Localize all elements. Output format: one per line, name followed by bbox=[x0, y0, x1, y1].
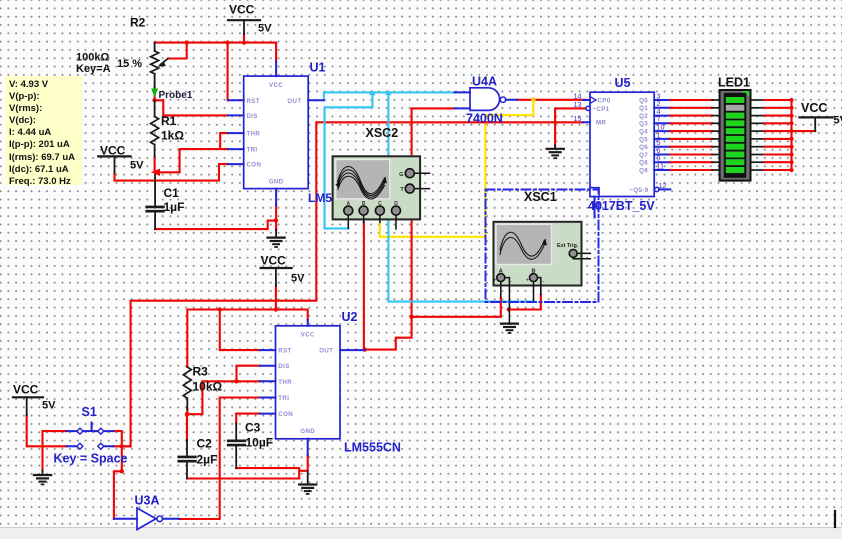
svg-text:Key=A: Key=A bbox=[76, 63, 111, 75]
svg-text:Q6: Q6 bbox=[639, 144, 648, 151]
wire: LED1 right red wires to VCC bus bbox=[765, 100, 816, 170]
switch S1 Key=Space bbox=[54, 405, 128, 466]
svg-text:A: A bbox=[346, 201, 350, 207]
svg-text:RST: RST bbox=[278, 348, 291, 355]
wire: THR/TRI net of U1 bbox=[155, 133, 228, 172]
op-amp U5 4017BT_5V body bbox=[574, 76, 671, 218]
svg-text:VCC: VCC bbox=[100, 144, 126, 158]
svg-text:S1: S1 bbox=[82, 405, 97, 419]
wire: U2 CON to C3 bbox=[236, 414, 260, 424]
node: XSC1 selection box (dashed) bbox=[486, 190, 599, 303]
wire: RST U1 from bus bbox=[227, 43, 229, 101]
node: yellow junction at gate output bbox=[531, 98, 536, 103]
wire: S1 right terminals tie + to U3A input bbox=[113, 431, 130, 519]
capacitor C2 2uF bbox=[179, 437, 218, 479]
resistor R1 1k bbox=[151, 100, 185, 156]
node: junction dots on LED VCC bus bbox=[789, 98, 793, 172]
svg-text:C2: C2 bbox=[197, 437, 213, 451]
svg-text:Q5: Q5 bbox=[639, 136, 648, 143]
ground (U2 GND) bbox=[299, 471, 316, 494]
svg-text:DIS: DIS bbox=[247, 113, 258, 120]
wire: DIS U1 net bbox=[155, 100, 228, 115]
node: junction at R3 bottom bbox=[185, 412, 189, 416]
ground (U5 CP1) bbox=[547, 145, 564, 158]
svg-text:A: A bbox=[499, 269, 503, 275]
wire: R2 wiper to bus bbox=[168, 43, 187, 59]
svg-text:VCC: VCC bbox=[13, 383, 39, 397]
wire: U2 TRI to U3A output bbox=[179, 398, 260, 520]
transistor U4A 7400N NAND gate bbox=[454, 75, 517, 126]
svg-text:CON: CON bbox=[278, 411, 293, 418]
wire: U2 THR to R3 bottom / C2 top bbox=[187, 381, 260, 440]
op-amp U1 LM555CN body bbox=[228, 61, 363, 206]
node: junction at U1 ground bbox=[274, 218, 278, 222]
power VCC right (LED anodes) bbox=[799, 101, 842, 131]
oscilloscope XSC2 (4-channel) bbox=[333, 126, 430, 229]
svg-text:D: D bbox=[394, 201, 398, 207]
power VCC above U2 bbox=[261, 254, 306, 286]
svg-text:GND: GND bbox=[300, 428, 315, 435]
transistor U3A inverter bbox=[114, 494, 179, 530]
svg-text:DIS: DIS bbox=[278, 363, 289, 370]
svg-text:R1: R1 bbox=[161, 114, 177, 128]
svg-text:Q9: Q9 bbox=[639, 167, 648, 174]
svg-text:Q7: Q7 bbox=[639, 152, 648, 159]
svg-text:13: 13 bbox=[574, 100, 582, 109]
wire: XSC1 A+/A-/B+ stems bbox=[501, 278, 541, 324]
svg-text:5V: 5V bbox=[834, 115, 842, 127]
wire: XSC2 channel B down to U2 OUT net bbox=[363, 222, 365, 350]
svg-text:XSC2: XSC2 bbox=[366, 126, 399, 140]
wire: C1 bottom to U1 GND net bbox=[155, 206, 276, 230]
svg-text:Key = Space: Key = Space bbox=[54, 452, 128, 466]
svg-text:THR: THR bbox=[247, 131, 261, 138]
svg-text:VCC: VCC bbox=[301, 332, 315, 339]
svg-text:Probe1: Probe1 bbox=[159, 90, 193, 101]
svg-text:Q2: Q2 bbox=[639, 113, 648, 120]
svg-text:T: T bbox=[400, 187, 404, 193]
svg-text:TRI: TRI bbox=[247, 147, 258, 154]
wire: U5 Q output stubs and pin numbers bbox=[639, 91, 670, 174]
probe Probe1 (green arrow) bbox=[151, 89, 193, 102]
node: scroll caret bottom right bbox=[834, 511, 836, 527]
svg-text:U3A: U3A bbox=[135, 494, 160, 508]
svg-text:1kΩ: 1kΩ bbox=[161, 129, 184, 143]
svg-text:~Q5-9: ~Q5-9 bbox=[629, 187, 648, 194]
wire: yellow net gate output to XSC2 channel C bbox=[380, 100, 533, 237]
svg-text:CP0: CP0 bbox=[598, 98, 611, 105]
node: cyan junction arrows on U4A input wire bbox=[369, 90, 391, 95]
svg-text:100kΩ: 100kΩ bbox=[76, 52, 109, 64]
cyan net: U1 OUT to U4A input A, XSC2-A, XSC1-B bbox=[324, 92, 534, 301]
svg-text:R3: R3 bbox=[193, 365, 209, 379]
svg-text:Q8: Q8 bbox=[639, 160, 648, 167]
wire: U1 GND stub red segment bbox=[275, 228, 277, 231]
resistor R3 10k bbox=[183, 365, 222, 410]
svg-text:XSC1: XSC1 bbox=[524, 190, 557, 204]
svg-text:LM555CN: LM555CN bbox=[344, 441, 401, 455]
ground (XSC1) bbox=[501, 324, 518, 333]
node: junctions on U2 VCC bus bbox=[218, 307, 278, 311]
svg-text:MR: MR bbox=[596, 120, 606, 127]
svg-text:LED1: LED1 bbox=[718, 76, 750, 90]
op-amp U2 LM555CN body bbox=[260, 310, 401, 455]
svg-text:VCC: VCC bbox=[269, 82, 283, 89]
wire: R1 bottom to THR/TRI junction bbox=[154, 157, 156, 173]
node: junction at S1 right bbox=[120, 444, 124, 473]
measurement probe readout box bbox=[5, 76, 82, 185]
LED1 bargraph display bbox=[718, 76, 751, 181]
svg-text:U5: U5 bbox=[615, 76, 631, 90]
wire: XSC1 B- to ground bbox=[508, 295, 541, 310]
wire: U5 CP1 to ground bbox=[555, 108, 586, 145]
svg-text:Q3: Q3 bbox=[639, 121, 648, 128]
svg-text:C3: C3 bbox=[245, 421, 261, 435]
svg-text:7400N: 7400N bbox=[466, 112, 503, 126]
wire: C2/C3 bottoms to U2 GND bbox=[187, 455, 308, 478]
wire: CON U1 to VCC 5V source bbox=[115, 164, 228, 181]
svg-text:11: 11 bbox=[657, 161, 664, 170]
svg-text:VCC: VCC bbox=[229, 3, 255, 17]
wire: S1 top-left to ground bbox=[43, 431, 67, 470]
wire: R3 bottom lead red bbox=[186, 409, 188, 414]
svg-text:Ext Trig.: Ext Trig. bbox=[557, 243, 579, 249]
svg-text:2µF: 2µF bbox=[197, 453, 218, 467]
svg-text:C1: C1 bbox=[164, 186, 180, 200]
power VCC bottom-left (S1) bbox=[13, 383, 56, 416]
bottom scrollbar strip bbox=[0, 527, 842, 539]
svg-text:TRI: TRI bbox=[278, 395, 289, 402]
svg-text:~CP1: ~CP1 bbox=[593, 106, 610, 113]
wire: U2 OUT net up to U4A input B (long vertical behind XSC2) bbox=[365, 108, 455, 349]
wire: LED1 left black leads bbox=[712, 100, 720, 170]
wire: XSC1 A+ to U2 OUT net bbox=[412, 298, 501, 317]
svg-text:Q0: Q0 bbox=[639, 97, 648, 104]
svg-text:10kΩ: 10kΩ bbox=[193, 380, 223, 394]
svg-text:Q4: Q4 bbox=[639, 129, 648, 136]
svg-text:B: B bbox=[531, 269, 535, 275]
svg-text:U2: U2 bbox=[342, 310, 358, 324]
node: junction at U2 OUT corner bbox=[362, 315, 413, 352]
svg-text:CON: CON bbox=[247, 162, 262, 169]
svg-text:Q1: Q1 bbox=[639, 105, 648, 112]
wire: U4A output to U5 CP0 bbox=[518, 99, 586, 101]
svg-text:5V: 5V bbox=[42, 400, 56, 412]
svg-text:5V: 5V bbox=[291, 273, 305, 285]
oscilloscope XSC1 (2-channel) bbox=[493, 222, 590, 286]
wire: R2 bottom to Probe node to R1 (red segment) bbox=[154, 87, 156, 100]
svg-text:THR: THR bbox=[278, 379, 292, 386]
svg-text:5V: 5V bbox=[130, 160, 144, 172]
node: arrow junction at C1 top bbox=[151, 169, 160, 176]
svg-text:G: G bbox=[399, 172, 403, 178]
svg-text:5V: 5V bbox=[258, 23, 272, 35]
svg-text:U4A: U4A bbox=[472, 75, 497, 89]
svg-text:VCC: VCC bbox=[801, 101, 827, 115]
wire: S1 VCC source feed bbox=[27, 415, 67, 446]
svg-text:C: C bbox=[378, 201, 382, 207]
ground (U1 GND) bbox=[268, 230, 285, 247]
svg-text:15 %: 15 % bbox=[117, 58, 142, 70]
svg-text:OUT: OUT bbox=[287, 98, 301, 105]
resistor R2 (potentiometer 100k) bbox=[76, 16, 168, 88]
svg-text:U1: U1 bbox=[310, 61, 326, 75]
svg-text:1µF: 1µF bbox=[164, 200, 185, 214]
svg-text:12: 12 bbox=[659, 181, 667, 190]
power VCC mid-left (CON net) bbox=[98, 144, 144, 173]
svg-text:10µF: 10µF bbox=[246, 436, 274, 450]
svg-text:GND: GND bbox=[269, 178, 284, 185]
power VCC top (main) bbox=[228, 3, 272, 35]
node: junction at R1 top / DIS bbox=[152, 98, 156, 102]
node: junction DIS/THR U2 bbox=[234, 379, 238, 383]
svg-text:B: B bbox=[362, 201, 366, 207]
svg-text:R2: R2 bbox=[130, 16, 146, 30]
svg-text:15: 15 bbox=[574, 114, 582, 123]
wire: U2 DIS to THR junction bbox=[237, 366, 260, 382]
svg-text:VCC: VCC bbox=[261, 254, 287, 268]
node: junction XSC1 ground bbox=[507, 307, 511, 311]
node junction dots on top VCC bus bbox=[185, 40, 247, 44]
svg-text:OUT: OUT bbox=[319, 348, 333, 355]
wire: VCC source to U2 VCC bus (y=309.5) bbox=[187, 286, 307, 367]
ground (S1 left) bbox=[34, 471, 51, 485]
wire: VCC top bus to R2/U1 (net y=42.6) bbox=[155, 34, 277, 62]
svg-text:RST: RST bbox=[247, 98, 260, 105]
wire: U2 RST up to VCC bus bbox=[220, 310, 260, 351]
wire: Q0-Q9 red wires to LED1 bbox=[670, 100, 712, 170]
wire: LED1 right black leads bbox=[751, 100, 765, 170]
capacitor C3 10uF bbox=[228, 421, 273, 469]
capacitor C1 1uF bbox=[147, 175, 185, 229]
wire: MR net from S1 to U5 (long route) bbox=[122, 122, 583, 446]
